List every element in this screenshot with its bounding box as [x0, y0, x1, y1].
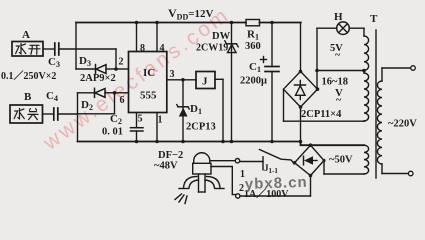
switch J1-1	[240, 150, 294, 170]
wire pin 4	[156, 23, 158, 52]
svg-text:555: 555	[140, 90, 157, 102]
svg-text:ybx8.cn: ybx8.cn	[245, 174, 308, 193]
svg-text:~50V: ~50V	[329, 155, 353, 166]
bridge rectifier 2 (1A/100V)	[295, 145, 325, 175]
svg-text:~: ~	[336, 95, 342, 106]
sensor A box	[12, 42, 43, 57]
terminal 2	[236, 194, 240, 198]
wire C3 to pin2 corner	[59, 49, 116, 69]
svg-text:6: 6	[120, 95, 125, 106]
capacitor C1 electrolytic	[261, 23, 280, 142]
watermark pink diagonal	[39, 3, 235, 155]
transformer primary 220V winding	[377, 66, 415, 176]
lamp H	[317, 22, 364, 71]
resistor R1	[246, 20, 260, 26]
wire to pin 6	[115, 92, 129, 94]
svg-text:DW: DW	[212, 31, 231, 42]
wire pin 8	[136, 23, 138, 52]
solenoid valve DF-2	[175, 153, 224, 204]
wire solenoid lead 1	[210, 160, 235, 162]
wire pin 1 to ground	[156, 113, 158, 142]
svg-text:2AP9×2: 2AP9×2	[80, 73, 116, 84]
capacitor C4	[54, 108, 58, 120]
transformer secondary 5V winding	[364, 28, 369, 70]
svg-text:5: 5	[138, 114, 143, 125]
wire pin 3 to J	[167, 79, 196, 81]
label 水开 glyphs	[16, 44, 40, 55]
bridge rectifier 2CP11x4	[284, 71, 318, 107]
svg-text:2CP11×4: 2CP11×4	[301, 109, 342, 120]
svg-text:0.1／250V×2: 0.1／250V×2	[1, 69, 56, 82]
svg-text:3: 3	[170, 69, 175, 80]
sensor B box	[10, 105, 43, 123]
svg-text:DF−2: DF−2	[158, 150, 183, 161]
diode D2 loop box	[78, 88, 115, 114]
node pin2 junction	[114, 67, 118, 71]
wire bridge AC right to tap	[316, 71, 318, 90]
node VDD junction C1	[270, 21, 274, 25]
svg-text:16~18: 16~18	[322, 77, 348, 88]
transformer secondary 50V winding	[324, 145, 369, 174]
wire bridge- to ground	[300, 107, 302, 142]
capacitor C3	[55, 43, 59, 55]
op-amp U1: IC 555 box	[129, 52, 167, 113]
svg-text:B: B	[24, 91, 32, 103]
label 水关 glyphs	[14, 109, 38, 120]
wire A to C3	[43, 48, 54, 50]
wire bridge+ to rail	[300, 23, 302, 72]
transformer secondary 16-18V winding	[364, 71, 369, 122]
svg-text:~220V: ~220V	[388, 119, 417, 130]
svg-text:4: 4	[160, 43, 165, 54]
VDD rail (top)	[76, 22, 301, 24]
svg-text:2: 2	[119, 57, 124, 68]
wire pin 5 and capacitor C2	[131, 113, 144, 142]
svg-text:H: H	[334, 11, 343, 23]
wire terminal2 to bridge2	[240, 176, 311, 197]
terminal 1	[235, 159, 239, 163]
node gnd junction dots	[135, 140, 303, 144]
diode D1	[177, 80, 189, 142]
svg-text:1: 1	[158, 115, 163, 126]
wire tap to coil	[317, 70, 364, 72]
wire solenoid lead 2	[211, 167, 236, 195]
wire to pin 2	[116, 68, 129, 70]
wire C4 to D2 box	[58, 113, 78, 115]
node bridge corners	[299, 70, 320, 109]
ground rail (bottom)	[78, 142, 365, 146]
node tap junction	[315, 69, 319, 73]
node pin3 junction D1	[181, 78, 185, 82]
svg-text:8: 8	[140, 43, 145, 54]
node VDD junction pin8	[135, 21, 139, 25]
svg-text:360: 360	[245, 41, 261, 52]
diode D3	[76, 65, 116, 74]
transformer core	[375, 30, 377, 178]
zener DW 2CW19	[225, 23, 238, 142]
svg-text:A: A	[22, 29, 30, 41]
node pin6 junction	[113, 91, 117, 95]
svg-text:J: J	[202, 76, 208, 88]
wire J to ground	[215, 79, 223, 141]
svg-text:~48V: ~48V	[154, 161, 178, 172]
svg-text:2200μ: 2200μ	[240, 76, 267, 87]
node VDD junction pin4	[155, 21, 159, 25]
node bridge2 corners	[293, 143, 326, 177]
node VDD junction DW	[230, 21, 234, 25]
wire bridge AC left to coil bottom	[284, 89, 365, 121]
svg-text:~: ~	[335, 50, 341, 61]
svg-text:0. 01: 0. 01	[102, 127, 123, 138]
svg-text:T: T	[370, 13, 378, 25]
svg-text:2CP13: 2CP13	[186, 122, 216, 133]
wire D2 box to ground rail	[77, 114, 79, 142]
svg-text:VDD=12V: VDD=12V	[168, 6, 214, 22]
svg-text:IC: IC	[143, 67, 155, 79]
wire VDD drop to D3	[75, 23, 77, 70]
relay J box	[196, 72, 215, 89]
svg-text:2CW19: 2CW19	[196, 43, 228, 54]
wire B to C4	[43, 113, 54, 115]
node coil tap	[362, 69, 366, 73]
